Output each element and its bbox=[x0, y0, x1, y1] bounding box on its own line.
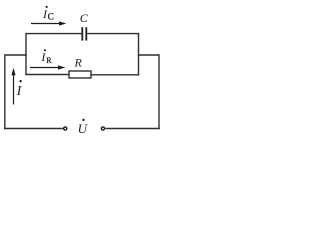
wire right inner vertical bbox=[138, 33, 140, 76]
svg-text:C: C bbox=[80, 11, 89, 25]
wire right junction horizontal bbox=[138, 54, 159, 56]
terminal left bbox=[64, 127, 67, 130]
wire bottom right bbox=[105, 128, 159, 130]
label I (total) bbox=[16, 80, 23, 99]
svg-text:U: U bbox=[78, 121, 89, 136]
current arrow I_R bbox=[30, 65, 65, 69]
terminal right bbox=[101, 127, 104, 130]
svg-text:C: C bbox=[48, 12, 54, 22]
label I_C bbox=[42, 6, 54, 22]
current arrow I (total) bbox=[11, 68, 15, 105]
wire resistor left lead bbox=[25, 74, 69, 76]
current arrow I_C bbox=[31, 21, 66, 25]
resistor R body bbox=[69, 71, 91, 78]
wire bottom left bbox=[4, 128, 63, 130]
svg-text:R: R bbox=[46, 56, 52, 65]
capacitor C plates bbox=[82, 27, 86, 40]
svg-text:R: R bbox=[74, 56, 83, 70]
wire right outer vertical bbox=[158, 54, 160, 129]
label U (voltage) bbox=[78, 119, 89, 136]
wire resistor right lead bbox=[91, 74, 139, 76]
wire top-left segment bbox=[26, 33, 82, 35]
wire left outer vertical bbox=[4, 54, 6, 129]
label I_R bbox=[40, 49, 52, 65]
wire top-right segment bbox=[87, 33, 139, 35]
wire left inner vertical bbox=[25, 33, 27, 75]
wire left junction horizontal bbox=[5, 54, 27, 56]
